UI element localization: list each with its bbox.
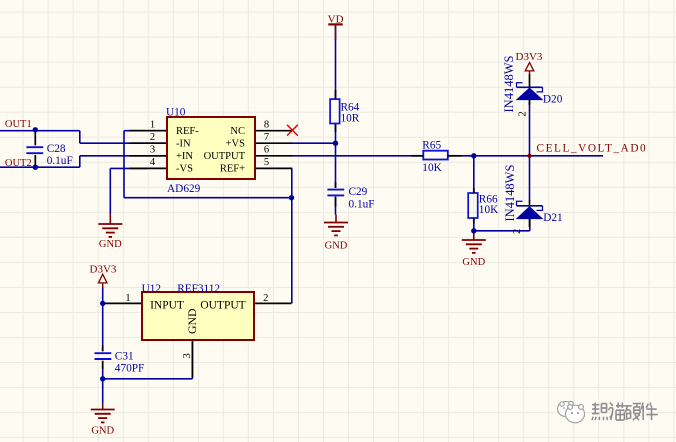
svg-text:REF3112: REF3112 — [177, 283, 220, 295]
svg-text:IN4148WS: IN4148WS — [502, 56, 516, 113]
svg-text:6: 6 — [264, 145, 269, 156]
svg-text:IN4148WS: IN4148WS — [503, 165, 517, 222]
svg-text:GND: GND — [462, 257, 485, 268]
svg-text:7: 7 — [264, 132, 269, 143]
svg-text:2: 2 — [512, 229, 523, 234]
svg-text:D21: D21 — [543, 212, 562, 224]
svg-text:NC: NC — [230, 126, 245, 137]
svg-text:VD: VD — [328, 13, 344, 25]
svg-text:CELL_VOLT_AD0: CELL_VOLT_AD0 — [537, 143, 648, 155]
svg-text:U12: U12 — [142, 283, 162, 295]
svg-text:2: 2 — [150, 132, 155, 143]
svg-text:REF+: REF+ — [220, 164, 245, 175]
svg-text:1: 1 — [150, 119, 155, 130]
svg-text:+IN: +IN — [176, 151, 193, 162]
svg-text:OUTPUT: OUTPUT — [204, 151, 246, 162]
svg-text:AD629: AD629 — [167, 183, 201, 195]
svg-text:R65: R65 — [422, 140, 441, 152]
svg-text:2: 2 — [263, 293, 268, 304]
svg-text:OUT1: OUT1 — [5, 119, 32, 130]
svg-text:C31: C31 — [115, 350, 134, 362]
svg-text:10K: 10K — [422, 162, 442, 174]
svg-text:-IN: -IN — [176, 138, 191, 149]
svg-text:8: 8 — [264, 119, 269, 130]
svg-text:4: 4 — [150, 157, 156, 168]
svg-text:GND: GND — [99, 239, 122, 250]
svg-text:3: 3 — [182, 353, 193, 358]
svg-text:1: 1 — [125, 293, 130, 304]
svg-text:D3V3: D3V3 — [90, 263, 117, 275]
svg-text:C29: C29 — [349, 186, 368, 198]
svg-text:10R: 10R — [341, 113, 360, 125]
svg-text:OUTPUT: OUTPUT — [200, 300, 245, 312]
svg-text:C28: C28 — [47, 143, 66, 155]
svg-text:INPUT: INPUT — [150, 300, 184, 312]
svg-text:GND: GND — [325, 240, 348, 251]
svg-text:GND: GND — [185, 308, 199, 334]
svg-text:-VS: -VS — [176, 164, 193, 175]
svg-text:3: 3 — [150, 145, 155, 156]
svg-text:10K: 10K — [479, 204, 499, 216]
svg-text:OUT2: OUT2 — [5, 158, 32, 169]
svg-text:+VS: +VS — [226, 138, 246, 149]
svg-text:2: 2 — [518, 111, 529, 116]
svg-text:5: 5 — [264, 157, 269, 168]
svg-text:REF-: REF- — [176, 126, 199, 137]
svg-text:U10: U10 — [166, 106, 186, 118]
svg-text:0.1uF: 0.1uF — [47, 155, 73, 167]
svg-text:D20: D20 — [543, 94, 563, 106]
svg-text:0.1uF: 0.1uF — [349, 198, 375, 210]
svg-text:D3V3: D3V3 — [516, 51, 543, 63]
svg-text:470PF: 470PF — [115, 363, 145, 375]
svg-text:GND: GND — [91, 426, 114, 437]
